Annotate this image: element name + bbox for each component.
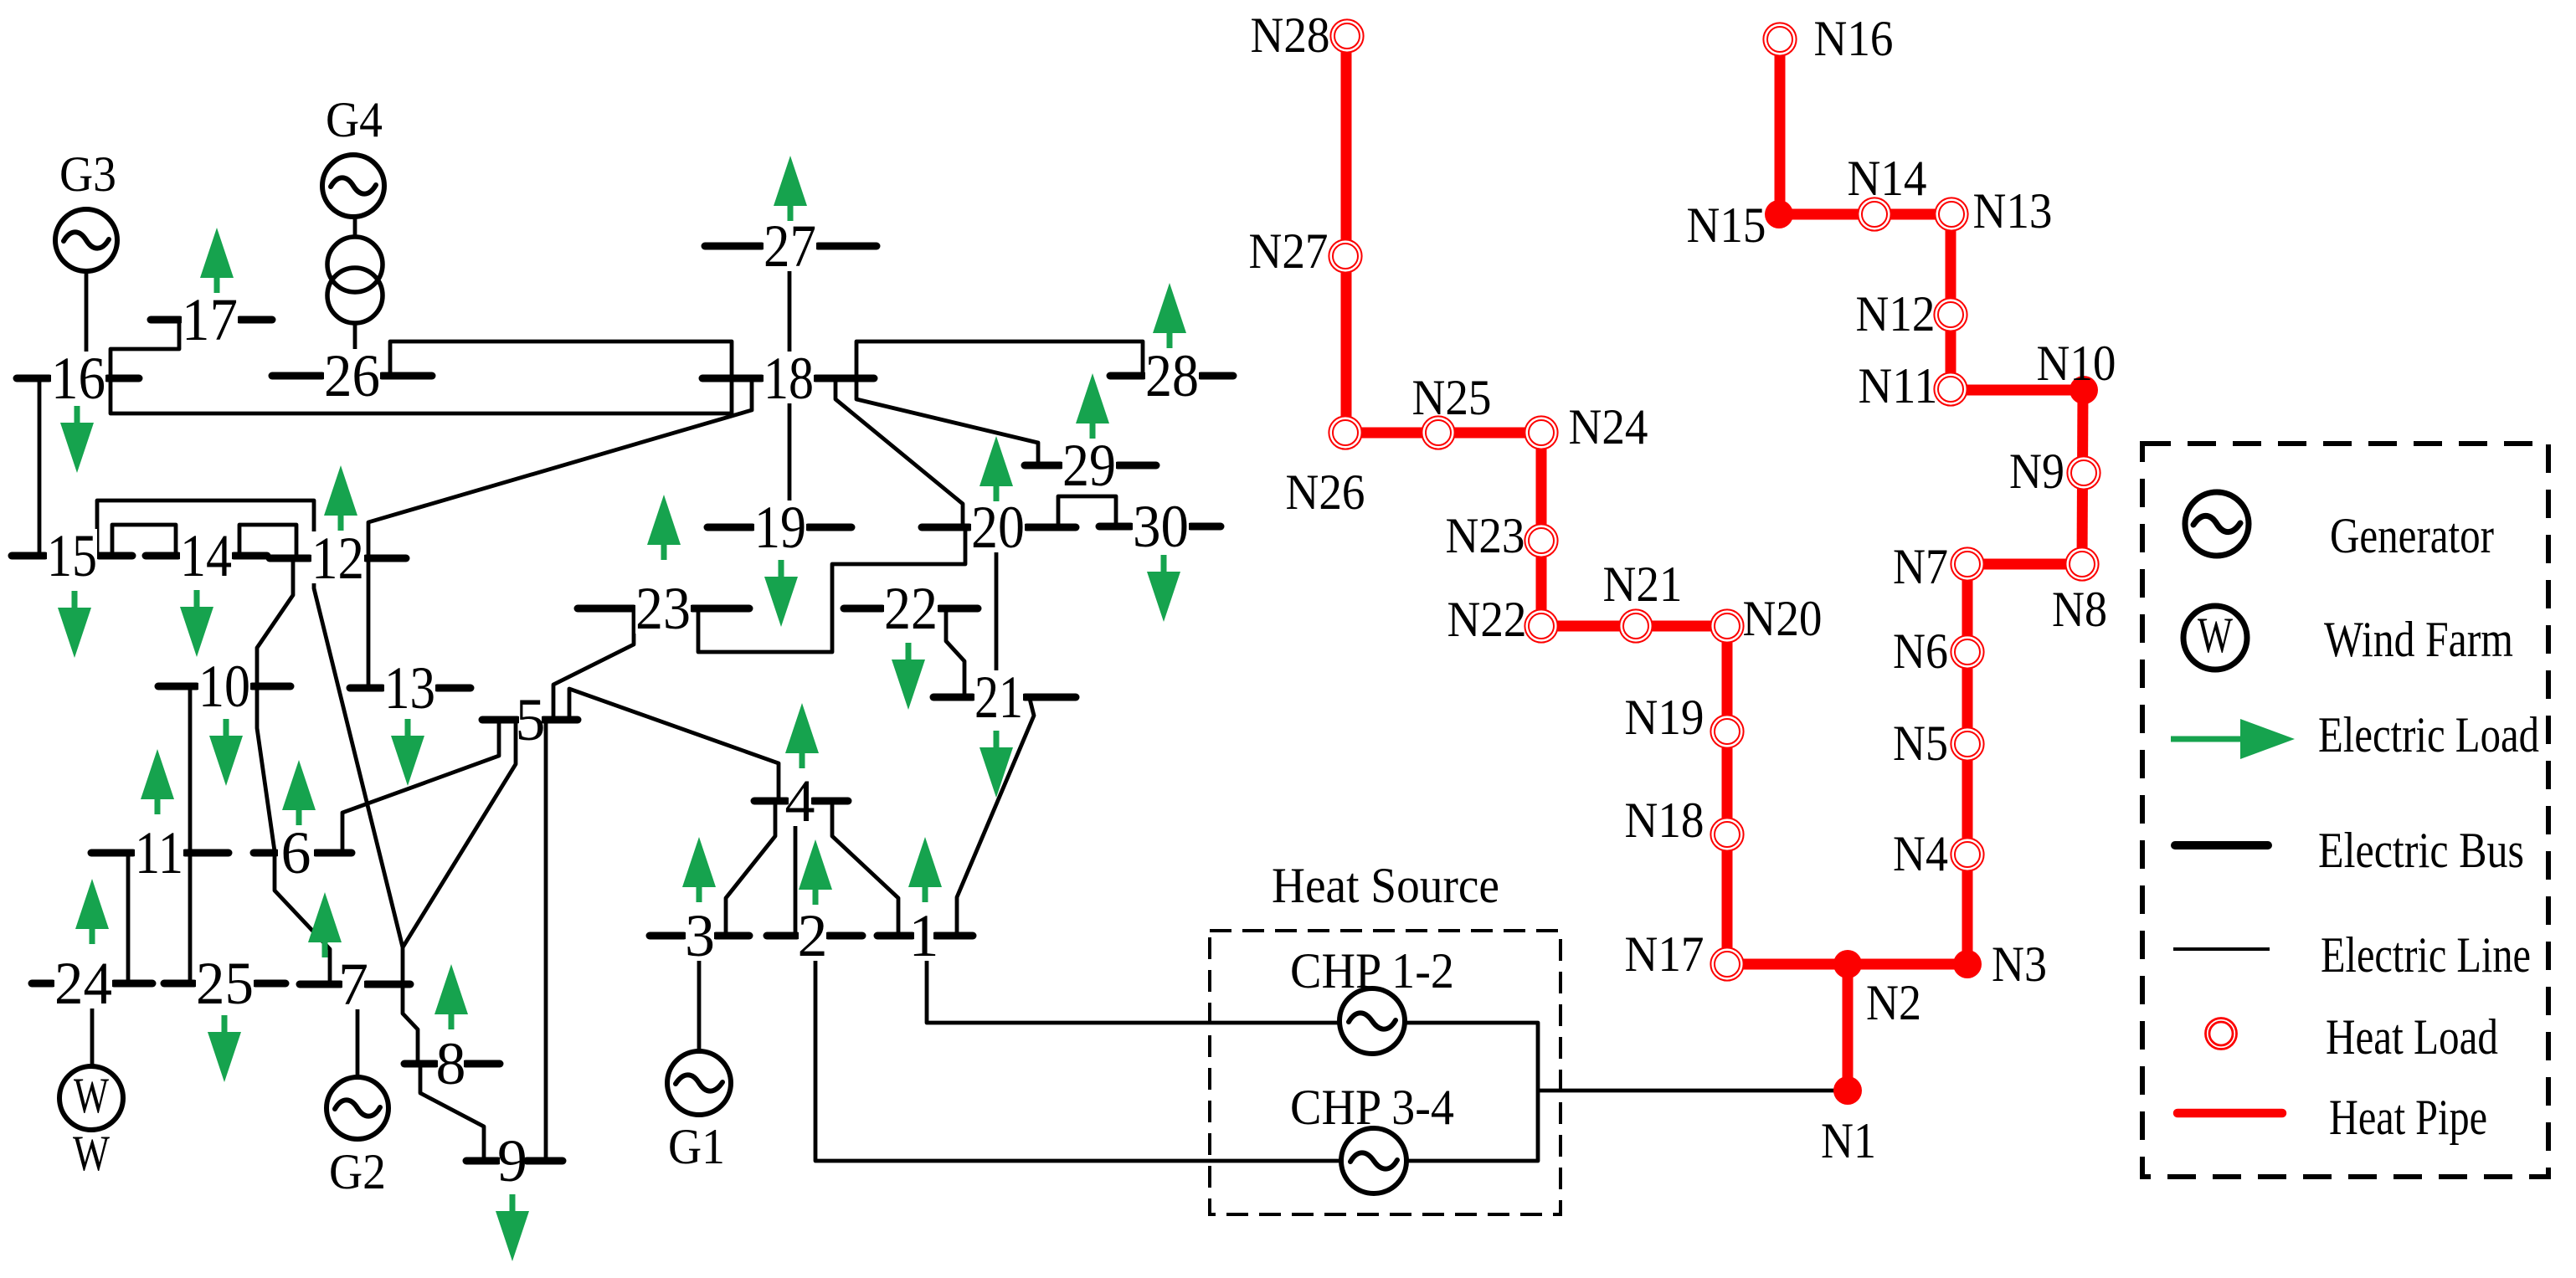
heat load node N4 — [1951, 838, 1983, 870]
electric bus 10 — [158, 653, 291, 720]
wire CHP junction to N1 — [1538, 1089, 1848, 1093]
transformer at bus 26 — [327, 237, 383, 323]
svg-text:G1: G1 — [668, 1119, 725, 1174]
electric bus 19 — [707, 494, 851, 561]
wire bus 1 to CHP 1-2 — [927, 939, 1339, 1023]
wire transformer to bus 26 — [353, 321, 357, 374]
heat load node N23 — [1525, 524, 1557, 557]
svg-text:15: 15 — [47, 522, 97, 589]
svg-text:N3: N3 — [1992, 937, 2047, 992]
svg-text:N22: N22 — [1447, 592, 1527, 647]
wire bus 15 - bus 7 — [97, 500, 403, 983]
svg-text:19: 19 — [754, 494, 806, 561]
svg-text:CHP 3-4: CHP 3-4 — [1290, 1080, 1454, 1135]
svg-text:N25: N25 — [1412, 370, 1492, 425]
svg-text:N1: N1 — [1821, 1113, 1876, 1168]
heat pipe N8-N9-N10 — [2082, 390, 2083, 564]
wire bus 4 - bus 3 — [726, 803, 775, 934]
wire bus 18 - bus 20 — [836, 380, 963, 526]
electric load arrow at bus 15 — [58, 591, 91, 658]
heat pipe N24-N23-N22 — [1536, 433, 1547, 626]
svg-text:G3: G3 — [59, 146, 116, 202]
electric load arrow at bus 10 — [209, 719, 243, 786]
electric bus 1 — [877, 902, 973, 969]
legend dashed box — [2142, 444, 2548, 1177]
svg-text:N2: N2 — [1866, 975, 1921, 1030]
svg-text:Generator: Generator — [2330, 508, 2494, 563]
svg-text:G2: G2 — [329, 1144, 386, 1199]
wire bus 20 - bus 23 — [698, 529, 965, 652]
wire bus 23 - bus 5 — [553, 610, 634, 718]
electric bus 11 — [91, 819, 229, 886]
wire bus 12 - bus 18 — [368, 378, 752, 557]
svg-text:W: W — [2198, 608, 2233, 663]
electric bus 14 — [146, 522, 267, 589]
electric bus 28 — [1110, 342, 1233, 409]
electric bus 29 — [1025, 432, 1156, 499]
svg-text:Electric Line: Electric Line — [2321, 927, 2531, 983]
svg-text:11: 11 — [135, 819, 183, 886]
heat pipe N11-N12-N13 — [1946, 214, 1956, 390]
svg-text:Heat Pipe: Heat Pipe — [2329, 1090, 2487, 1145]
svg-text:N6: N6 — [1893, 624, 1948, 679]
heat load node N6 — [1951, 635, 1983, 668]
heat pipe N3-N4-N5-N6-N7 — [1962, 564, 1973, 964]
heat load node N26 — [1329, 416, 1361, 449]
svg-text:N4: N4 — [1893, 826, 1948, 881]
svg-text:Heat Source: Heat Source — [1272, 858, 1499, 913]
wire bus 16 - bus 18 — [111, 378, 732, 413]
svg-text:N21: N21 — [1603, 557, 1683, 612]
electric bus 15 — [12, 522, 132, 589]
wire bus 3 to G1 — [697, 937, 702, 1050]
heat load node N7 — [1951, 547, 1983, 580]
wire bus 8 - bus 9 — [420, 1065, 484, 1159]
svg-text:N17: N17 — [1625, 926, 1704, 982]
Heat Source dashed box — [1210, 931, 1561, 1214]
heat load node N24 — [1525, 416, 1557, 449]
electric load arrow at bus 30 — [1147, 555, 1180, 622]
svg-text:N5: N5 — [1893, 716, 1948, 771]
generator G2 — [326, 1077, 388, 1199]
heat load node N12 — [1934, 298, 1967, 331]
generator G1 — [667, 1051, 731, 1174]
electric bus 30 — [1099, 493, 1221, 560]
wire bus 12 - bus 10 — [257, 560, 293, 685]
wire CHP outputs join — [1406, 1023, 1538, 1161]
generator G3 — [55, 146, 117, 271]
electric load arrow at bus 24 — [75, 879, 109, 944]
electric bus 4 — [754, 767, 848, 834]
wire bus 4 - bus 1 — [832, 803, 898, 934]
svg-text:N20: N20 — [1743, 591, 1823, 646]
electric load arrow at bus 25 — [208, 1015, 241, 1082]
electric load arrow at bus 9 — [496, 1194, 529, 1261]
svg-text:Electric Bus: Electric Bus — [2318, 823, 2524, 878]
heat load node N9 — [2067, 456, 2100, 489]
electric bus 2 — [767, 902, 862, 969]
electric bus 21 — [933, 664, 1076, 731]
electric bus 26 — [272, 342, 432, 409]
heat pipe N7-N8 — [1967, 559, 2082, 570]
legend heat load symbol — [2206, 1019, 2237, 1050]
heat pipe N26-N25-N24 — [1346, 428, 1541, 439]
heat pipe N15-N16 — [1775, 39, 1786, 214]
wire bus 5 - bus 7 — [403, 721, 516, 947]
svg-text:25: 25 — [196, 950, 254, 1017]
svg-text:2: 2 — [798, 902, 828, 969]
electric bus 20 — [922, 494, 1076, 561]
electric bus 17 — [151, 286, 272, 353]
electric load arrow at bus 28 — [1153, 283, 1186, 348]
electric load arrow at bus 23 — [647, 495, 681, 560]
svg-text:N19: N19 — [1625, 690, 1704, 745]
wire bus 17 - bus 16 — [111, 322, 179, 377]
svg-text:14: 14 — [180, 522, 232, 589]
heat pipe N2-N1 — [1843, 964, 1854, 1091]
heat load node N18 — [1710, 818, 1743, 850]
electric load arrow at bus 19 — [764, 560, 798, 627]
electric load arrow at bus 27 — [774, 156, 807, 221]
svg-text:26: 26 — [324, 342, 380, 409]
electric bus 18 — [702, 345, 874, 412]
svg-text:N18: N18 — [1625, 793, 1704, 848]
electric load arrow at bus 1 — [908, 837, 942, 902]
wire bus 21 - bus 1 — [957, 699, 1034, 934]
heat pipe N17-N2-N3 — [1727, 959, 1967, 970]
electric load arrow at bus 3 — [682, 837, 716, 902]
wire bus 5 - bus 4 — [569, 689, 779, 799]
wire bus 18 - bus 29 — [856, 380, 1038, 464]
svg-text:N9: N9 — [2009, 444, 2064, 499]
wire bus 18 - bus 19 — [788, 380, 792, 526]
wire bus 22 - bus 21 — [946, 610, 964, 695]
heat junction node N15 — [1765, 200, 1793, 228]
heat load node N19 — [1710, 715, 1743, 747]
electric bus 7 — [300, 951, 410, 1018]
heat junction node N1 — [1833, 1076, 1862, 1105]
wire bus 7 - bus 8 — [403, 986, 418, 1062]
electric bus 24 — [32, 950, 152, 1017]
svg-text:CHP 1-2: CHP 1-2 — [1290, 943, 1454, 998]
wire bus 20 - bus 21 — [995, 529, 999, 680]
electric bus 25 — [164, 950, 285, 1017]
electric bus 27 — [705, 213, 877, 280]
heat load node N27 — [1329, 239, 1361, 272]
svg-text:17: 17 — [182, 286, 238, 353]
electric load arrow at bus 22 — [892, 643, 925, 710]
svg-text:4: 4 — [785, 767, 815, 834]
wire G3 to bus 16 — [85, 272, 89, 377]
electric load arrow at bus 14 — [180, 590, 213, 657]
electric load arrow at bus 2 — [799, 839, 832, 905]
svg-text:13: 13 — [384, 654, 435, 721]
svg-text:16: 16 — [51, 345, 105, 412]
electric bus 13 — [350, 654, 470, 721]
wire bus 10 - bus 25 — [188, 688, 193, 982]
heat pipe N20-N19-N18-N17 — [1722, 626, 1733, 964]
svg-text:N11: N11 — [1859, 358, 1938, 413]
svg-text:8: 8 — [436, 1030, 466, 1097]
heat load node N5 — [1951, 727, 1983, 760]
svg-text:1: 1 — [909, 902, 939, 969]
svg-text:5: 5 — [516, 686, 546, 753]
heat junction node N2 — [1833, 950, 1862, 978]
svg-text:7: 7 — [338, 951, 368, 1018]
svg-text:Wind Farm: Wind Farm — [2324, 612, 2513, 667]
generator G4 — [322, 92, 384, 217]
svg-text:N7: N7 — [1893, 539, 1948, 594]
legend electric load arrow — [2171, 719, 2295, 759]
heat load node N22 — [1525, 609, 1557, 642]
heat pipe N10-N11 — [1951, 385, 2083, 396]
electric bus 22 — [844, 575, 978, 642]
svg-text:6: 6 — [281, 819, 311, 886]
wire bus 27 - bus 18 — [788, 249, 792, 377]
electric load arrow at bus 12 — [324, 465, 357, 531]
electric load arrow at bus 6 — [282, 760, 316, 825]
heat load node N8 — [2065, 547, 2098, 580]
wire bus 16 - bus 15 — [38, 380, 42, 556]
heat load node N20 — [1710, 609, 1743, 642]
legend wind farm symbol — [2183, 606, 2247, 670]
wire bus 12 - bus 13 — [367, 560, 371, 686]
electric load arrow at bus 8 — [434, 964, 468, 1029]
svg-text:N14: N14 — [1848, 151, 1927, 206]
svg-text:27: 27 — [764, 213, 816, 280]
heat load node N13 — [1935, 198, 1967, 230]
wire bus 24 to wind farm W — [90, 987, 95, 1065]
electric bus 8 — [404, 1030, 500, 1097]
svg-text:N27: N27 — [1249, 223, 1329, 279]
heat load node N16 — [1763, 23, 1796, 55]
svg-text:N28: N28 — [1251, 8, 1330, 63]
electric bus 16 — [17, 345, 139, 412]
electric load arrow at bus 13 — [391, 719, 424, 786]
heat load node N28 — [1330, 19, 1363, 52]
wire bus 20 - bus 30 — [1058, 496, 1116, 526]
electric bus 3 — [650, 902, 749, 969]
svg-text:10: 10 — [198, 653, 250, 720]
CHP 3-4 unit — [1290, 1080, 1454, 1193]
wire bus 6 - bus 7 — [275, 855, 330, 983]
svg-text:30: 30 — [1133, 493, 1189, 560]
wire bus 2 to CHP 3-4 — [815, 939, 1340, 1161]
heat load node N21 — [1619, 609, 1652, 642]
legend heat pipe symbol — [2178, 1109, 2282, 1118]
electric load arrow at bus 7 — [308, 892, 342, 957]
svg-text:21: 21 — [974, 664, 1023, 731]
svg-text:18: 18 — [764, 345, 814, 412]
electric load arrow at bus 29 — [1076, 373, 1109, 439]
svg-text:N16: N16 — [1814, 11, 1894, 66]
wire bus 26 - bus 18 — [390, 341, 732, 378]
electric load arrow at bus 11 — [141, 749, 174, 814]
svg-text:N24: N24 — [1569, 399, 1648, 454]
svg-text:12: 12 — [311, 525, 364, 592]
electric bus 23 — [578, 575, 749, 642]
wire bus 14 - bus 12 — [239, 525, 296, 557]
legend electric bus symbol — [2175, 841, 2268, 849]
wire bus 11 - bus 24 — [126, 855, 131, 982]
wire bus 18 - bus 28 — [856, 341, 1143, 377]
heat pipe N28-N27-N26 — [1341, 36, 1352, 433]
svg-text:Heat Load: Heat Load — [2326, 1009, 2498, 1065]
svg-text:W: W — [73, 1126, 110, 1181]
heat junction node N3 — [1953, 950, 1982, 978]
svg-text:N15: N15 — [1687, 198, 1766, 253]
svg-text:G4: G4 — [326, 92, 383, 147]
heat load node N17 — [1710, 947, 1743, 980]
svg-text:24: 24 — [54, 950, 112, 1017]
electric load arrow at bus 4 — [785, 703, 819, 768]
legend electric line symbol — [2173, 947, 2270, 951]
wire bus 7 to G2 — [356, 988, 360, 1076]
svg-text:22: 22 — [884, 575, 938, 642]
electric bus 6 — [254, 819, 352, 886]
svg-text:N26: N26 — [1286, 464, 1365, 520]
svg-text:N8: N8 — [2052, 582, 2107, 637]
electric load arrow at bus 16 — [60, 406, 94, 473]
electric load arrow at bus 20 — [979, 436, 1013, 501]
heat pipe N13-N14-N15 — [1779, 209, 1951, 220]
heat load node N14 — [1858, 198, 1890, 230]
electric load arrow at bus 21 — [979, 731, 1013, 798]
wire bus 15 - bus 14 — [112, 525, 176, 554]
wire bus 10 - bus 6 — [257, 688, 275, 851]
legend generator symbol — [2185, 492, 2249, 556]
svg-text:28: 28 — [1145, 342, 1199, 409]
svg-text:N23: N23 — [1446, 508, 1525, 563]
electric bus 5 — [482, 686, 578, 753]
heat junction node N10 — [2070, 376, 2098, 404]
svg-text:9: 9 — [497, 1127, 527, 1194]
wind farm W at bus 24 — [59, 1066, 123, 1181]
electric load arrow at bus 17 — [200, 228, 234, 293]
svg-text:W: W — [74, 1068, 109, 1123]
svg-text:N10: N10 — [2037, 336, 2116, 391]
svg-text:3: 3 — [685, 902, 715, 969]
CHP 1-2 unit — [1290, 943, 1454, 1054]
heat load node N11 — [1934, 372, 1967, 405]
heat pipe N22-N21-N20 — [1541, 621, 1727, 632]
svg-text:N12: N12 — [1856, 286, 1936, 341]
wire bus 6 - bus 5 — [342, 718, 499, 851]
svg-text:N13: N13 — [1973, 183, 2053, 239]
wire bus 4 - bus 2 — [794, 803, 798, 934]
electric bus 9 — [466, 1127, 563, 1194]
svg-text:20: 20 — [971, 494, 1025, 561]
wire G4 to transformer — [353, 218, 357, 237]
svg-text:29: 29 — [1062, 432, 1116, 499]
heat load node N25 — [1422, 416, 1454, 449]
svg-text:Electric Load: Electric Load — [2318, 707, 2539, 762]
svg-text:23: 23 — [635, 575, 691, 642]
wire bus 5 - bus 9 — [544, 721, 548, 1159]
electric bus 12 — [270, 525, 406, 592]
